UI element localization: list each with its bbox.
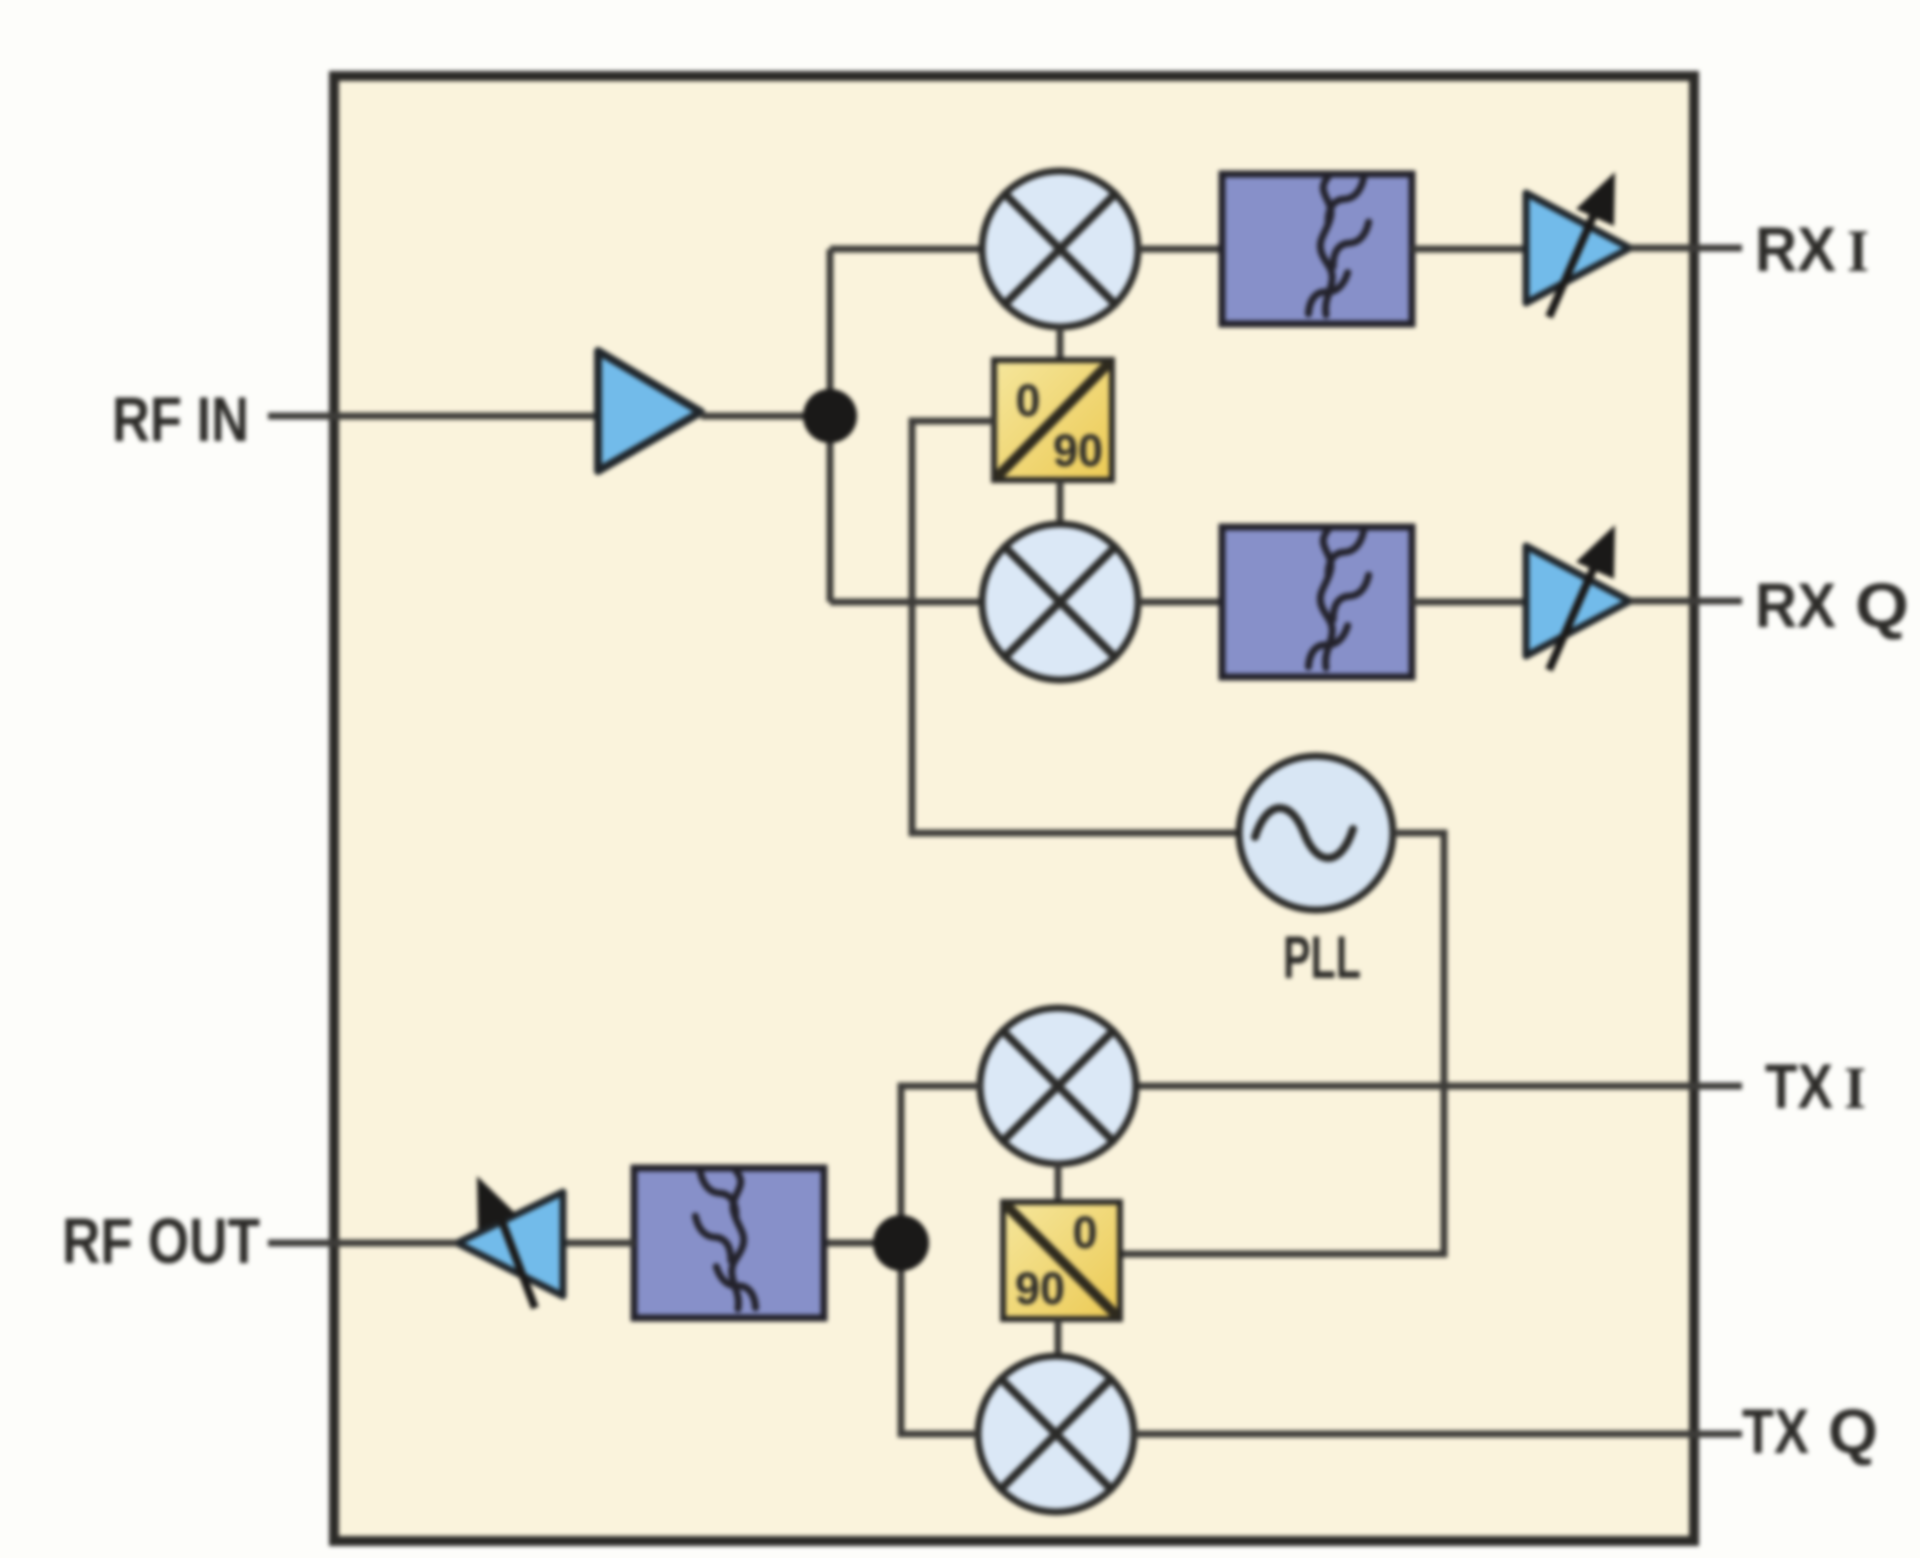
outer chip box xyxy=(334,76,1694,1541)
svg-text:0: 0 xyxy=(1072,1207,1097,1258)
wire TX splitter to M4 xyxy=(1055,1319,1062,1356)
mixer M4 xyxy=(978,1356,1134,1512)
phase splitter 0/90 TX xyxy=(1003,1202,1120,1319)
svg-text:TX: TX xyxy=(1742,1397,1809,1467)
VGA3 output amp xyxy=(457,1176,563,1308)
svg-text:RF OUT: RF OUT xyxy=(62,1205,260,1277)
VGA2 variable gain amp xyxy=(1526,525,1630,670)
wire VGA3 to RF OUT xyxy=(268,1240,457,1247)
svg-text:90: 90 xyxy=(1053,425,1103,476)
node TX combiner junction xyxy=(873,1215,929,1271)
filter F1 xyxy=(1222,174,1412,324)
oscillator PLL xyxy=(1239,756,1393,910)
wire VGA1 to RX I xyxy=(1630,245,1742,252)
node junction RF splitter xyxy=(803,389,857,443)
wire to mixer M2 xyxy=(830,599,982,606)
wire M2 to filter F2 xyxy=(1138,599,1222,606)
wire to mixer M1 xyxy=(830,246,982,253)
wire M1 to phase splitter xyxy=(1057,327,1064,360)
svg-text:0: 0 xyxy=(1015,375,1040,426)
wire M3 to TX splitter xyxy=(1055,1163,1062,1202)
wire combiner to TX filter xyxy=(824,1240,901,1247)
wire splitter to PLL xyxy=(912,421,1238,833)
wire VGA2 to RX Q xyxy=(1630,598,1742,605)
wire M3 to TX combiner xyxy=(901,1086,981,1243)
filter F2 xyxy=(1222,527,1412,677)
wire RF IN lead xyxy=(268,413,598,420)
svg-text:RF IN: RF IN xyxy=(112,385,249,455)
wire TX I input xyxy=(1135,1083,1742,1090)
svg-text:Q: Q xyxy=(1828,1397,1878,1467)
wire PLL to TX splitter xyxy=(1120,833,1444,1254)
wire M1 to filter F1 xyxy=(1138,246,1222,253)
mixer M1 xyxy=(982,171,1138,327)
wire TX Q input xyxy=(1134,1431,1742,1438)
svg-text:90: 90 xyxy=(1015,1263,1065,1314)
svg-text:TX: TX xyxy=(1765,1052,1833,1122)
mixer M2 xyxy=(982,524,1138,680)
wire splitter to M2 xyxy=(1057,480,1064,524)
wire M4 to TX combiner xyxy=(901,1243,978,1434)
svg-text:RX: RX xyxy=(1755,215,1836,285)
svg-text:Q: Q xyxy=(1855,571,1909,641)
mixer M3 xyxy=(980,1008,1136,1164)
filter F3 xyxy=(634,1168,824,1318)
svg-text:PLL: PLL xyxy=(1283,924,1361,991)
wire amp to junction xyxy=(701,413,830,420)
phase splitter 0/90 RX xyxy=(994,360,1112,480)
wire junction vertical xyxy=(827,249,834,602)
VGA1 variable gain amp xyxy=(1526,172,1630,317)
wire F2 to VGA2 xyxy=(1412,599,1526,606)
wire F1 to VGA1 xyxy=(1412,246,1526,253)
svg-text:RX: RX xyxy=(1755,571,1836,641)
svg-text:I: I xyxy=(1847,218,1869,284)
svg-text:I: I xyxy=(1844,1055,1866,1121)
wire F3 to VGA3 xyxy=(563,1240,634,1247)
amplifier A1 xyxy=(598,351,701,471)
